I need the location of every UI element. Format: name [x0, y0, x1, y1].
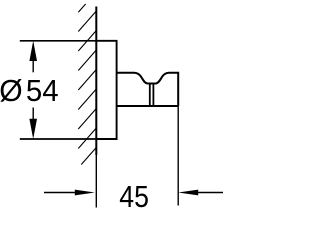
- top extension line of dim Ø54: [20, 40, 97, 42]
- dim 45 right arrow: [197, 192, 223, 194]
- flange (wall plate) outline: [96, 41, 116, 139]
- svg-text:Ø: Ø: [0, 74, 23, 109]
- hook bottom edge: [117, 105, 179, 107]
- bottom extension line of dim Ø54: [20, 138, 97, 140]
- right extension line (front face of hook, 45 dim): [177, 106, 179, 206]
- svg-text:45: 45: [119, 180, 149, 214]
- wall line: [95, 7, 97, 156]
- dim 45 left arrow: [44, 192, 76, 194]
- hook stem double line: [149, 84, 151, 106]
- dim Ø54 upper arrow: [32, 44, 34, 72]
- hook body outline: [117, 73, 179, 106]
- wall hatching: [78, 4, 96, 165]
- svg-text:54: 54: [26, 74, 59, 108]
- dim Ø54 lower arrow: [32, 108, 34, 136]
- wall extension line (left extension of 45 dim): [95, 155, 97, 208]
